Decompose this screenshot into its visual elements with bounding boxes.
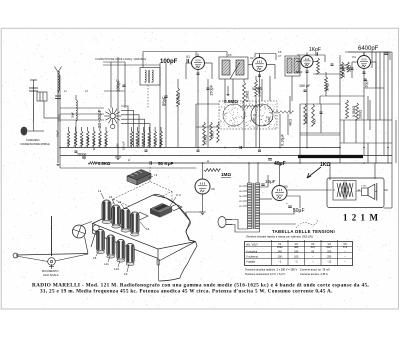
svg-text:40μF: 40μF <box>274 161 286 167</box>
svg-text:–12: –12 <box>327 261 332 264</box>
svg-text:COMMUTATORE ONDE A FREQ. VARIA: COMMUTATORE ONDE A FREQ. VARIABILE <box>95 58 147 61</box>
svg-text:V griglia: V griglia <box>246 261 256 264</box>
svg-text:(Tensioni misurate rispetto a: (Tensioni misurate rispetto a massa con … <box>246 236 313 239</box>
svg-text:250: 250 <box>327 255 332 258</box>
svg-text:2KΩ: 2KΩ <box>159 139 163 145</box>
svg-text:0.5MΩ: 0.5MΩ <box>86 137 90 145</box>
svg-text:Ω: Ω <box>128 158 130 162</box>
svg-text:0.2MΩ: 0.2MΩ <box>246 91 250 102</box>
svg-text:C.3: C.3 <box>176 193 181 197</box>
svg-text:MOVIMENTO: MOVIMENTO <box>42 269 59 273</box>
svg-text:I.3: I.3 <box>154 173 158 177</box>
svg-text:Corrente access. 2,35 A: Corrente access. 2,35 A <box>300 272 328 276</box>
svg-text:5Y3: 5Y3 <box>343 247 348 249</box>
svg-text:6B8: 6B8 <box>294 247 299 249</box>
svg-text:0.5MΩ: 0.5MΩ <box>224 99 238 104</box>
svg-text:50μF: 50μF <box>293 208 305 214</box>
svg-text:Corrente anod. tot. 78 mA: Corrente anod. tot. 78 mA <box>300 268 330 272</box>
svg-text:0.5MΩ: 0.5MΩ <box>352 106 356 117</box>
svg-text:VAL. VOLT: VAL. VOLT <box>246 244 258 247</box>
svg-text:50 KΩ: 50 KΩ <box>252 87 262 91</box>
svg-text:V schermo: V schermo <box>246 255 259 258</box>
svg-text:6TE8: 6TE8 <box>277 247 283 249</box>
svg-text:100 pF: 100 pF <box>122 141 126 150</box>
svg-text:31, 25 e 19 m. Media frequenza: 31, 25 e 19 m. Media frequenza 455 kc. P… <box>40 288 333 294</box>
svg-text:0.1MΩ: 0.1MΩ <box>204 134 208 145</box>
svg-text:MΩ: MΩ <box>313 119 317 124</box>
svg-text:V2: V2 <box>295 242 299 246</box>
svg-text:V4: V4 <box>352 55 356 59</box>
svg-text:3MΩ: 3MΩ <box>130 139 134 145</box>
svg-text:63pF: 63pF <box>56 130 60 137</box>
svg-text:V2: V2 <box>250 56 254 60</box>
svg-text:L8: L8 <box>93 256 97 260</box>
svg-text:5KΩ: 5KΩ <box>325 83 330 91</box>
svg-text:1MΩ: 1MΩ <box>142 139 146 145</box>
svg-text:COMANDO: COMANDO <box>26 138 40 142</box>
svg-text:250: 250 <box>327 250 332 253</box>
svg-text:280pF: 280pF <box>77 152 87 156</box>
svg-text:V3: V3 <box>297 53 301 57</box>
svg-text:V5: V5 <box>343 242 347 246</box>
svg-text:L.TM: L.TM <box>361 186 366 188</box>
svg-text:1KΩ: 1KΩ <box>67 140 71 145</box>
svg-text:6400pF: 6400pF <box>358 46 379 52</box>
svg-text:V6: V6 <box>211 187 215 191</box>
svg-text:2KΩ: 2KΩ <box>74 139 78 145</box>
svg-text:1KpF: 1KpF <box>309 47 321 53</box>
svg-text:100pF: 100pF <box>116 79 121 92</box>
svg-text:30+30pF: 30+30pF <box>97 109 102 128</box>
svg-text:V4: V4 <box>328 242 332 246</box>
svg-text:6V6: 6V6 <box>311 247 316 249</box>
svg-text:4KΩ: 4KΩ <box>289 119 293 126</box>
svg-text:L10: L10 <box>114 267 119 271</box>
svg-text:3MΩ: 3MΩ <box>211 131 215 138</box>
svg-text:240: 240 <box>294 250 299 253</box>
svg-text:1MΩ: 1MΩ <box>92 139 96 145</box>
svg-text:50μF: 50μF <box>296 70 303 74</box>
svg-text:V5: V5 <box>284 185 288 189</box>
svg-text:+: + <box>266 153 268 157</box>
svg-text:1 2 1: 1 2 1 <box>343 213 366 223</box>
svg-text:150 pF: 150 pF <box>299 84 311 88</box>
svg-text:TABELLA DELLE TENSIONI: TABELLA DELLE TENSIONI <box>272 229 335 234</box>
svg-text:M: M <box>370 213 379 223</box>
svg-text:Ω: Ω <box>207 160 209 163</box>
svg-text:100: 100 <box>278 255 283 258</box>
svg-text:2MΩ: 2MΩ <box>80 139 84 145</box>
svg-text:Tensione accensione 6,3 V = 6: Tensione accensione 6,3 V = 6,3 V <box>245 272 285 276</box>
svg-text:V1: V1 <box>278 242 282 246</box>
svg-text:39pF: 39pF <box>71 112 75 118</box>
svg-text:0.16μF: 0.16μF <box>281 133 285 146</box>
svg-text:1KΩ: 1KΩ <box>342 63 347 67</box>
svg-text:V3: V3 <box>311 242 315 246</box>
svg-text:100pF: 100pF <box>160 59 178 65</box>
svg-text:2MΩ: 2MΩ <box>153 139 157 145</box>
svg-text:0.5MΩ: 0.5MΩ <box>147 137 151 145</box>
svg-text:150pF: 150pF <box>209 84 214 96</box>
svg-text:AGO SCALA: AGO SCALA <box>43 273 59 277</box>
svg-text:2MΩ: 2MΩ <box>98 139 102 145</box>
svg-text:0.5KΩ: 0.5KΩ <box>98 161 111 166</box>
svg-text:200Ω: 200Ω <box>359 110 363 119</box>
svg-text:Tensione anodica raddrizz. 2 x: Tensione anodica raddrizz. 2 x 280 V = 2… <box>245 268 298 272</box>
svg-text:V1: V1 <box>186 55 190 59</box>
svg-text:22000: 22000 <box>58 114 62 122</box>
svg-text:0.25MΩ: 0.25MΩ <box>305 113 309 124</box>
svg-text:L2: L2 <box>118 200 122 204</box>
svg-text:L11: L11 <box>104 262 109 266</box>
svg-text:240: 240 <box>278 250 283 253</box>
svg-text:1KΩ: 1KΩ <box>320 162 330 168</box>
svg-text:L6: L6 <box>109 195 113 199</box>
svg-text:CONDENSATORE MOBILE: CONDENSATORE MOBILE <box>20 143 50 146</box>
